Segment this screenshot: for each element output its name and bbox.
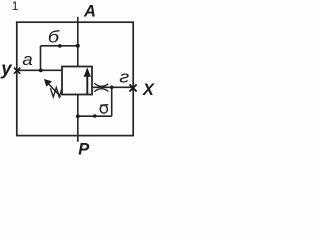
- wire node a horizontal: [17, 69, 62, 71]
- valve flow arrow: [84, 67, 91, 93]
- svg-text:A: A: [83, 2, 96, 20]
- junction dot b-line on A-line: [76, 44, 80, 48]
- wire port P vertical: [77, 95, 79, 142]
- wire node b vertical drop: [40, 46, 42, 71]
- junction dot g: [110, 86, 114, 90]
- wire node b horizontal: [41, 45, 78, 47]
- svg-text:г: г: [119, 67, 129, 86]
- valve body box: [62, 67, 92, 95]
- junction dot v-line on P-line: [76, 114, 80, 118]
- node v dot: [93, 114, 97, 118]
- node a junction dot: [39, 69, 43, 73]
- wire branch g down: [111, 87, 113, 116]
- svg-text:б: б: [48, 27, 60, 46]
- node v label: [100, 105, 108, 114]
- svg-text:X: X: [142, 81, 155, 99]
- svg-text:а: а: [22, 50, 33, 69]
- wire node v horizontal: [78, 115, 112, 117]
- plugged port x-mark left: [14, 68, 20, 74]
- wire port A vertical: [77, 17, 79, 67]
- node b dot: [58, 44, 62, 48]
- svg-text:y: y: [0, 57, 13, 78]
- plugged port x-mark right: [130, 84, 137, 91]
- wire restrictor line to X: [92, 86, 133, 88]
- svg-text:P: P: [78, 140, 90, 156]
- spring adjustment arrow: [44, 79, 61, 97]
- restrictor arcs: [94, 83, 108, 92]
- enclosure outer box: [17, 22, 133, 135]
- svg-text:1: 1: [12, 0, 19, 13]
- spring (adjustable) zigzag: [50, 88, 62, 97]
